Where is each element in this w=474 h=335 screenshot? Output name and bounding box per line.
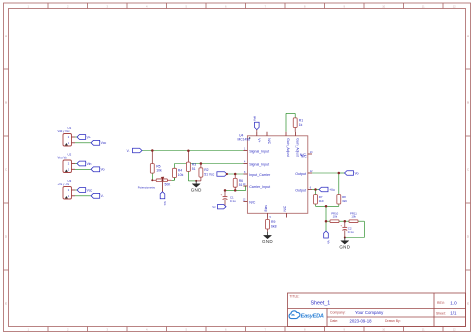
- svg-text:Sheet:: Sheet:: [436, 311, 446, 315]
- svg-text:10: 10: [382, 4, 385, 8]
- svg-text:Vcc: Vcc: [101, 141, 107, 145]
- svg-text:N/C: N/C: [249, 200, 256, 204]
- svg-text:N/C: N/C: [283, 205, 287, 211]
- svg-text:12: 12: [453, 328, 456, 332]
- svg-text:Date:: Date:: [330, 319, 338, 323]
- svg-text:GND: GND: [339, 245, 350, 250]
- svg-text:10: 10: [382, 328, 385, 332]
- svg-text:1/1: 1/1: [450, 311, 457, 316]
- svg-text:Output: Output: [295, 188, 306, 192]
- svg-text:Potenciometro: Potenciometro: [138, 186, 156, 190]
- svg-text:N/C: N/C: [267, 138, 271, 144]
- svg-text:Vo: Vo: [101, 168, 105, 172]
- svg-text:Vcc: Vcc: [209, 173, 215, 177]
- svg-text:Vm: Vm: [163, 201, 167, 206]
- svg-text:Input_Carrier: Input_Carrier: [249, 173, 271, 177]
- svg-text:Signal_Input: Signal_Input: [249, 149, 269, 153]
- svg-text:6k8: 6k8: [271, 224, 277, 228]
- svg-text:2023-09-18: 2023-09-18: [350, 318, 373, 323]
- svg-text:+: +: [221, 193, 223, 197]
- svg-text:10k: 10k: [156, 169, 162, 173]
- svg-text:11: 11: [422, 4, 425, 8]
- svg-text:+: +: [340, 223, 342, 227]
- svg-text:51: 51: [239, 183, 243, 187]
- svg-text:Bias: Bias: [264, 205, 268, 212]
- svg-text:3k9: 3k9: [342, 199, 347, 203]
- svg-text:Gain_Adjust: Gain_Adjust: [296, 138, 300, 157]
- svg-text:51: 51: [204, 172, 208, 176]
- svg-text:11: 11: [422, 328, 425, 332]
- svg-text:Vin: Vin: [87, 162, 92, 166]
- svg-text:10k: 10k: [351, 214, 356, 218]
- svg-text:B: B: [467, 101, 469, 105]
- svg-text:REV:: REV:: [437, 301, 445, 305]
- svg-text:Gain_Adjust: Gain_Adjust: [286, 138, 290, 157]
- svg-text:Vs y Vo: Vs y Vo: [58, 155, 68, 159]
- svg-text:E: E: [467, 302, 469, 306]
- svg-text:A: A: [467, 34, 469, 38]
- svg-text:Carrier_Input: Carrier_Input: [249, 185, 270, 189]
- svg-text:10k: 10k: [333, 214, 338, 218]
- svg-text:51: 51: [192, 167, 196, 171]
- svg-text:C: C: [467, 168, 469, 172]
- svg-text:Output: Output: [295, 172, 306, 176]
- svg-text:Signal_Input: Signal_Input: [249, 162, 269, 166]
- svg-text:Sheet_1: Sheet_1: [311, 300, 331, 306]
- svg-text:B: B: [5, 101, 7, 105]
- svg-text:TITLE:: TITLE:: [290, 295, 300, 299]
- svg-text:3k9: 3k9: [319, 199, 324, 203]
- svg-text:0.1u: 0.1u: [348, 230, 354, 234]
- svg-text:V-: V-: [101, 194, 104, 198]
- svg-text:+Vs y -Vs: +Vs y -Vs: [58, 182, 70, 186]
- svg-text:Vo: Vo: [355, 171, 359, 175]
- svg-text:A: A: [5, 34, 7, 38]
- svg-text:1.0: 1.0: [450, 300, 457, 305]
- svg-text:E: E: [5, 302, 7, 306]
- svg-text:Vb: Vb: [326, 240, 330, 244]
- svg-text:1k: 1k: [299, 123, 303, 127]
- svg-text:U2: U2: [68, 153, 72, 157]
- svg-text:V+: V+: [257, 138, 261, 142]
- svg-text:Vcc: Vcc: [87, 188, 93, 192]
- svg-text:EasyEDA: EasyEDA: [301, 313, 324, 319]
- svg-text:Vc: Vc: [212, 205, 216, 209]
- svg-text:0.1u: 0.1u: [230, 199, 236, 203]
- svg-text:GND: GND: [191, 188, 202, 193]
- svg-text:D: D: [5, 235, 7, 239]
- svg-text:50K: 50K: [165, 183, 172, 187]
- svg-text:C: C: [5, 168, 7, 172]
- svg-text:12: 12: [453, 4, 456, 8]
- svg-text:+Vo: +Vo: [329, 188, 335, 192]
- svg-text:N/C: N/C: [301, 154, 307, 158]
- svg-text:Vdd: Vdd: [252, 116, 256, 121]
- svg-text:Drawn By:: Drawn By:: [385, 319, 401, 323]
- svg-text:Vdd y Vcc: Vdd y Vcc: [58, 129, 71, 133]
- svg-text:10k: 10k: [178, 173, 184, 177]
- svg-text:Your Company: Your Company: [355, 310, 384, 315]
- svg-text:MC1496: MC1496: [238, 137, 251, 141]
- svg-text:GND: GND: [262, 239, 273, 244]
- svg-text:Company:: Company:: [330, 311, 346, 315]
- svg-text:V-: V-: [127, 149, 130, 153]
- svg-text:D: D: [467, 235, 469, 239]
- svg-text:V+: V+: [87, 135, 91, 139]
